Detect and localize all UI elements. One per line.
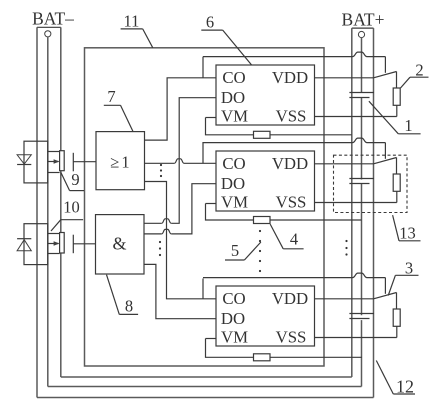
wire VSS line IC2 [315, 202, 397, 204]
label 6 leader [223, 30, 252, 65]
wire BAT+ center above C1 [361, 38, 363, 93]
wire charger-sense hop over cell taps IC2 [353, 138, 368, 143]
svg-text:BAT–: BAT– [32, 9, 74, 29]
body diode D1 [17, 155, 31, 164]
svg-text:VSS: VSS [276, 107, 307, 126]
wire VDD line IC2 [315, 163, 374, 165]
label 3 leader [388, 275, 395, 295]
svg-text:DO: DO [221, 309, 245, 328]
wire CO3 to OR input [145, 182, 217, 299]
wire DO2 to AND input [171, 184, 216, 234]
svg-text:10: 10 [63, 198, 80, 217]
transistor Q1 body stub with arrow [48, 161, 59, 163]
transistor Q1 channel [60, 151, 65, 171]
svg-text:&: & [112, 234, 126, 254]
svg-text:VM: VM [221, 107, 248, 126]
wire CO2 to OR input [184, 162, 216, 164]
transistor Q2 drain stub [48, 233, 60, 235]
wire Q1 gate lead to OR gate [73, 161, 96, 163]
wire VDD line IC1 [315, 77, 374, 79]
resistor R2a top lead [396, 158, 398, 175]
wire VM stub IC3 [206, 338, 217, 340]
wire charger-sense hop over cell taps IC3 [353, 273, 368, 278]
label 7 underline [104, 104, 121, 106]
label 9 leader [61, 172, 70, 190]
transistor Q1 gate plate [72, 153, 74, 172]
svg-text:VDD: VDD [272, 289, 308, 308]
wire DO3 to AND input [144, 264, 216, 318]
resistor R3a top lead [396, 293, 398, 310]
capacitor C3 top plate [349, 313, 374, 315]
label 2 underline [410, 76, 429, 78]
svg-text:VM: VM [221, 328, 248, 347]
OR gate U4 box [96, 132, 145, 190]
wire charger contact drop IC1 [384, 57, 386, 73]
transistor Q2 body stub with arrow [48, 243, 59, 245]
label 11 underline [121, 28, 143, 30]
switch blade IC1 [374, 72, 397, 78]
transistor Q1 drain stub [48, 151, 60, 153]
wire BAT- outer rail (left edge down) [36, 27, 38, 397]
wire charger-sense line IC2 [203, 142, 353, 144]
protection IC U1 box [216, 65, 315, 125]
resistor R2a [393, 174, 400, 191]
label 4 underline [283, 248, 303, 250]
protection IC U3 box [216, 286, 315, 346]
wire DO1 hop over CO3 [162, 219, 172, 224]
label 9 underline [70, 190, 84, 192]
svg-text:5: 5 [231, 241, 239, 260]
wire charger-sense hop over cell taps IC1 [353, 52, 368, 57]
svg-text:VSS: VSS [276, 193, 307, 212]
wire loop 11 rectangle [85, 48, 325, 366]
resistor R3a [393, 309, 400, 326]
svg-text:VSS: VSS [276, 328, 307, 347]
body diode D1 box [24, 141, 48, 183]
wire bottom loop mid (BAT- center to capacitor stack) [48, 386, 362, 388]
label 8 leader [107, 275, 120, 315]
transistor Q2 source stub [48, 253, 60, 255]
ellipsis dots right column [345, 240, 347, 242]
body diode D2 [17, 240, 31, 251]
resistor R1b (VM series) [254, 131, 271, 138]
wire capacitor stack column below C3 [361, 320, 363, 386]
capacitor C3 bottom plate [349, 318, 369, 320]
svg-text:CO: CO [222, 154, 245, 173]
wire charger contact drop IC3 [384, 278, 386, 294]
label 5 underline [225, 259, 244, 261]
label 8 underline [119, 313, 138, 315]
wire DO2 hop over CO3 [162, 229, 172, 234]
wire bottom loop outer (BAT- to BAT+ right) [37, 397, 374, 399]
svg-text:CO: CO [222, 68, 245, 87]
resistor R3a bottom lead [396, 326, 398, 337]
label 13 leader [393, 215, 399, 241]
resistor R3b (VM series) [254, 354, 271, 361]
wire VSS line IC3 [315, 337, 397, 339]
svg-text:3: 3 [405, 259, 413, 278]
resistor R1a [393, 88, 400, 105]
svg-text:6: 6 [206, 13, 214, 32]
wire DO1 to AND input [171, 98, 216, 224]
label 12 leader [376, 361, 393, 395]
label 5 leader [244, 242, 261, 260]
label 13 underline [399, 240, 421, 242]
svg-text:VDD: VDD [272, 68, 308, 87]
wire FET rail between Q1 and Q2 [60, 171, 62, 233]
svg-text:13: 13 [399, 224, 416, 243]
label 7 leader [121, 105, 133, 131]
BAT- terminal [37, 26, 61, 28]
svg-text:CO: CO [222, 289, 245, 308]
wire VM stub IC1 [206, 117, 217, 119]
ellipsis dots AND inputs [159, 241, 161, 243]
wire VSS line IC1 [315, 116, 397, 118]
svg-text:8: 8 [125, 297, 133, 316]
wire charger contact drop IC2 [384, 143, 386, 159]
label 12 underline [393, 393, 415, 395]
wire charger-sense line IC1 [203, 56, 353, 58]
ellipsis dots OR inputs [160, 164, 162, 166]
label 1 underline [398, 133, 420, 135]
transistor Q2 channel [60, 233, 65, 254]
wire charger-sense line IC3 [203, 277, 353, 279]
body diode D2 box [24, 224, 48, 265]
wire VM line IC3 [206, 339, 254, 358]
dashed box 13 (repeated cell unit) [334, 155, 408, 212]
wire VM line IC1 [206, 118, 254, 135]
wire BAT- center conductor [47, 37, 49, 387]
protection IC U2 box [216, 151, 315, 211]
svg-text:VM: VM [221, 193, 248, 212]
BAT+ terminal [352, 27, 374, 29]
ellipsis dots middle column [259, 230, 261, 232]
wire capacitor stack column C1-C2 [361, 98, 363, 180]
wire charger-sense net IC2 vertical tap [202, 142, 204, 163]
svg-text:1: 1 [404, 116, 412, 135]
label 3 underline [395, 274, 418, 276]
svg-text:4: 4 [290, 230, 298, 249]
label 6 underline [201, 29, 222, 31]
wire BAT+ right rail down [373, 28, 375, 397]
svg-text:DO: DO [221, 174, 245, 193]
svg-text:11: 11 [124, 11, 140, 30]
capacitor C1 top plate [349, 92, 374, 94]
wire VM stub IC2 [206, 203, 217, 205]
wire VDD line IC3 [315, 298, 374, 300]
svg-text:9: 9 [71, 170, 79, 189]
resistor R2a bottom lead [396, 191, 398, 202]
wire BAT+ left rail down [351, 28, 353, 377]
svg-text:≥1: ≥1 [110, 153, 132, 172]
transistor Q1 source stub [48, 172, 60, 174]
wire capacitor stack column C2-C3 [361, 184, 363, 316]
AND gate U5 box [96, 215, 145, 274]
wire Q2 gate lead to AND gate [73, 243, 95, 245]
wire FET rail below Q2 [60, 253, 62, 377]
switch blade IC3 [374, 293, 397, 299]
svg-text:BAT+: BAT+ [342, 10, 385, 30]
capacitor C2 bottom plate [349, 183, 369, 185]
label 10 leader [51, 220, 61, 231]
wire VM line IC2 [206, 204, 254, 221]
transistor Q2 gate plate [72, 235, 74, 254]
svg-text:DO: DO [221, 88, 245, 107]
label 1 leader [369, 101, 398, 134]
wire CO1 to OR input [145, 78, 217, 140]
svg-text:7: 7 [107, 87, 115, 106]
label 11 leader [143, 29, 153, 48]
label 2 leader [401, 77, 411, 88]
resistor R1a bottom lead [396, 105, 398, 116]
switch blade IC2 [374, 158, 397, 164]
capacitor C1 bottom plate [349, 97, 369, 99]
label 4 leader [270, 224, 283, 249]
resistor R2b (VM series) [254, 217, 271, 224]
svg-text:VDD: VDD [272, 154, 308, 173]
wire FET drain-source rail [60, 27, 62, 150]
capacitor C2 top plate [349, 178, 374, 180]
wire charger-sense net IC3 vertical tap [202, 279, 204, 299]
wire CO2 hop over DO1 [174, 159, 184, 164]
label 10 underline [61, 219, 83, 221]
wire charger-sense net IC1 vertical tap [202, 57, 204, 78]
resistor R1a top lead [396, 72, 398, 89]
wire bottom loop inner (FET rail to BAT+ left) [61, 376, 352, 378]
